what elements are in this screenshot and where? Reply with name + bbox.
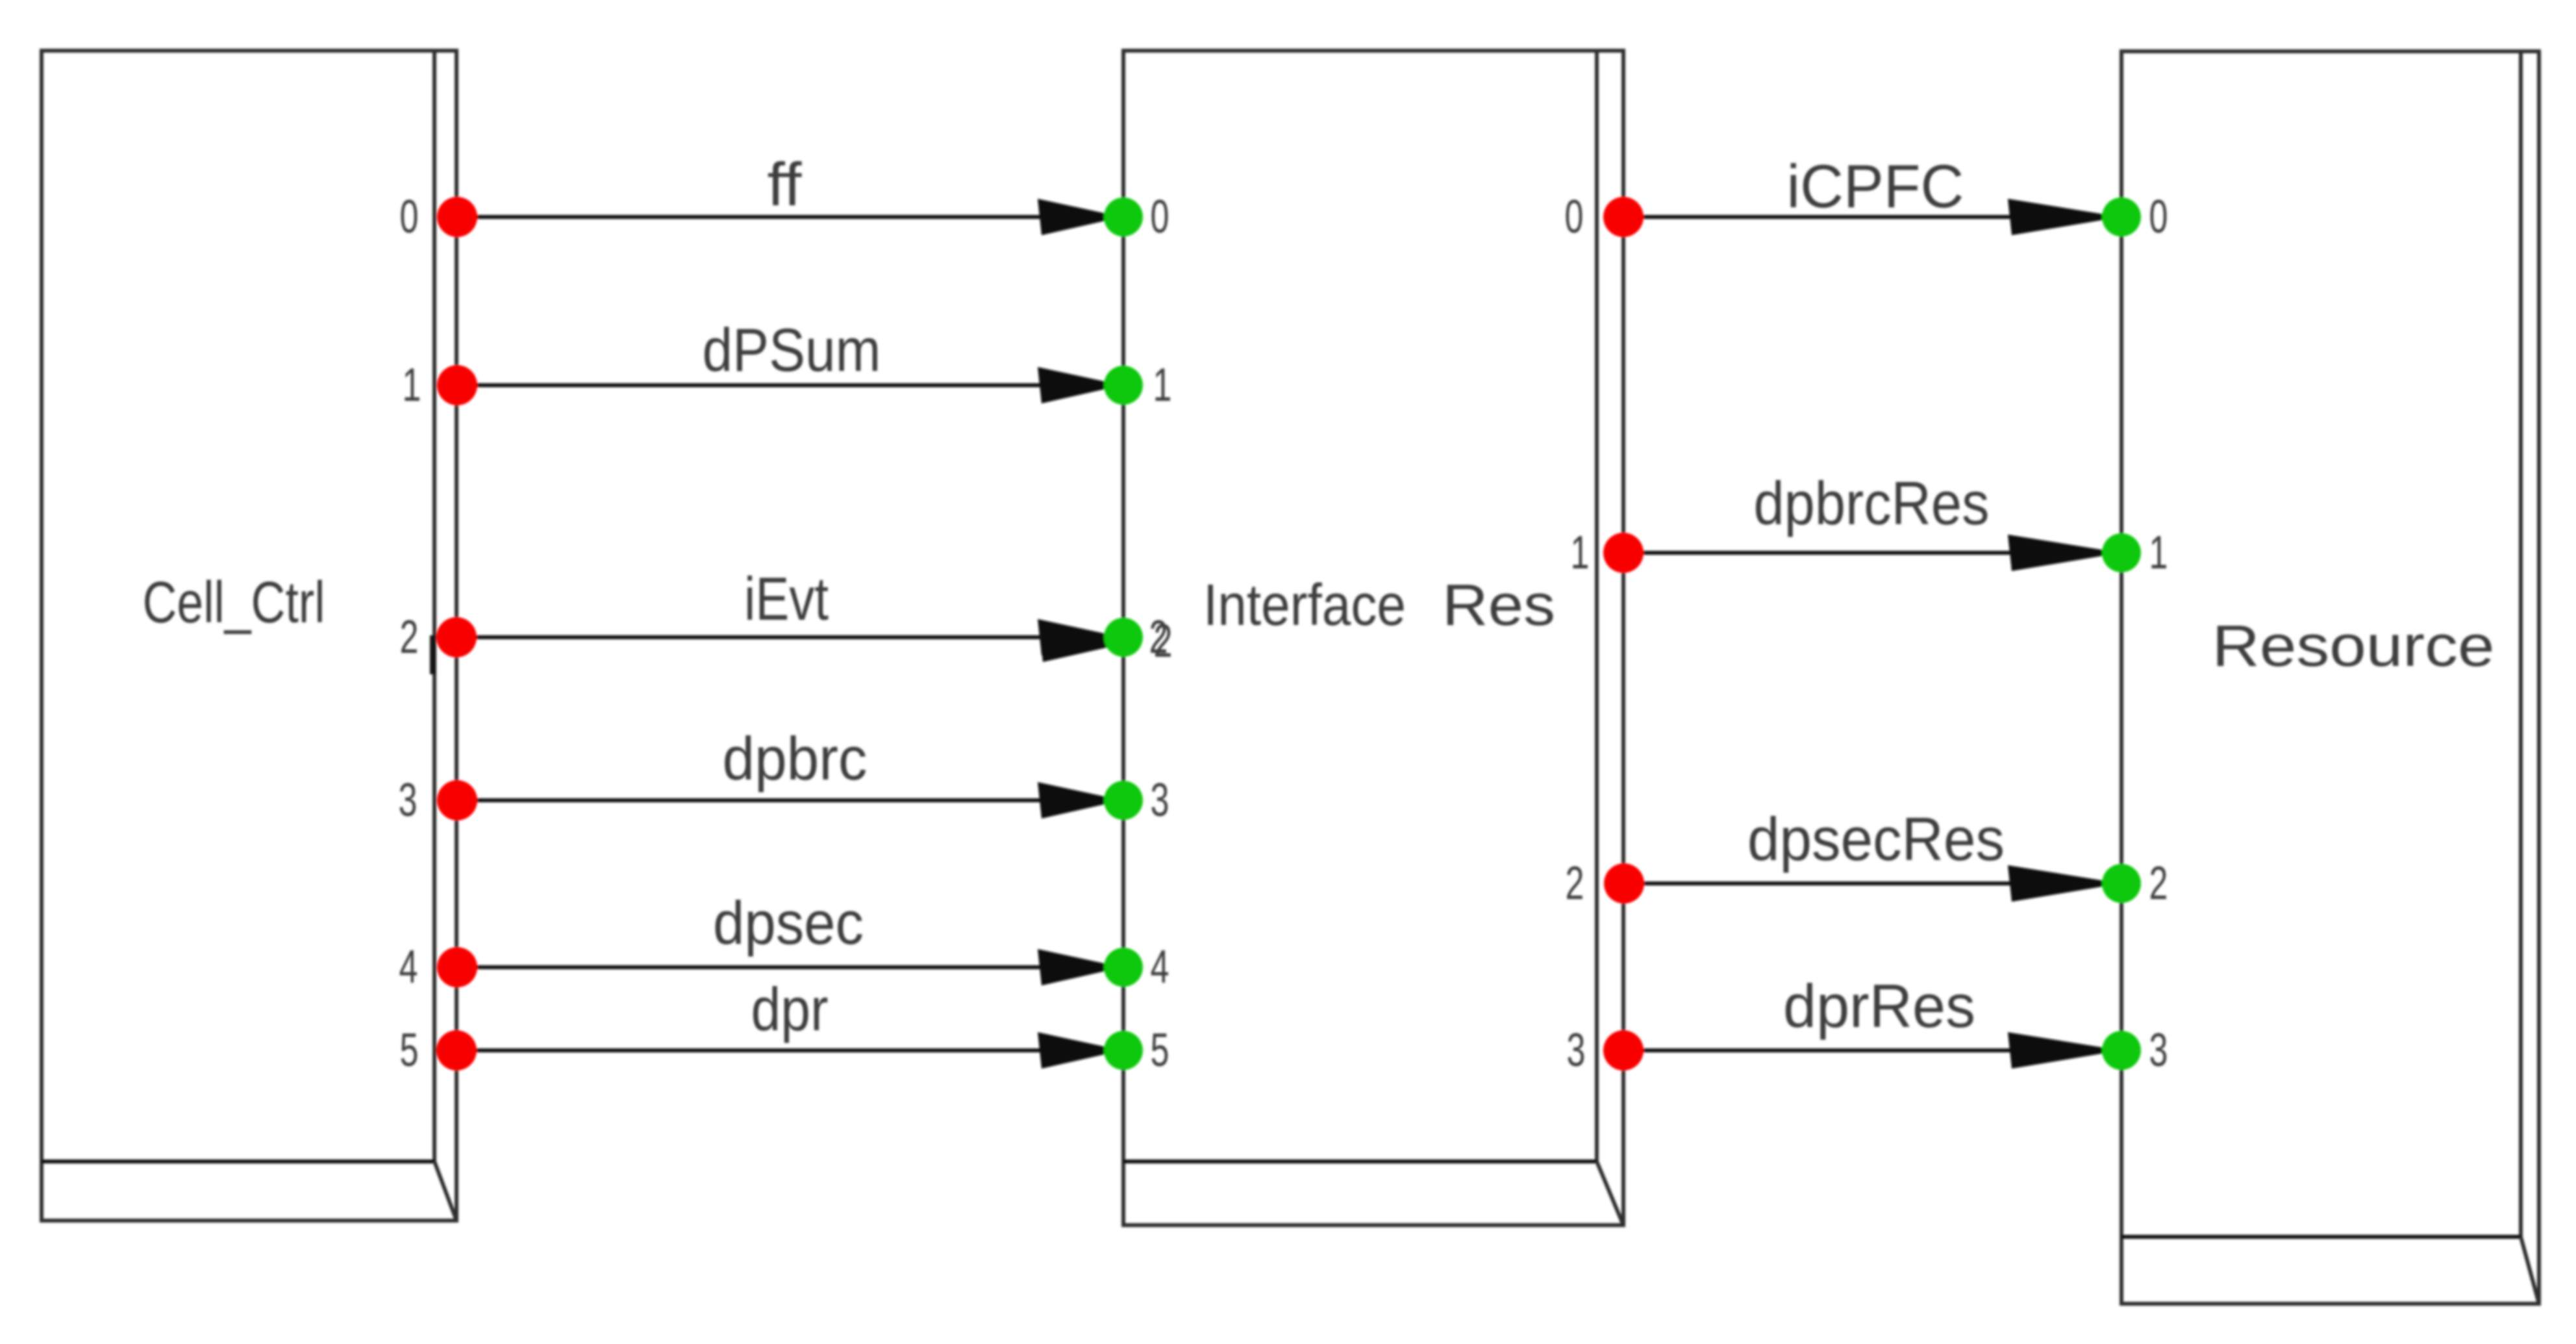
- port InterfaceRes in 3: [1104, 781, 1143, 820]
- arrowhead ff: [1038, 199, 1122, 235]
- svg-text:Res: Res: [1442, 573, 1555, 638]
- block Resource: [2121, 51, 2539, 1304]
- svg-text:0: 0: [400, 191, 419, 243]
- svg-text:5: 5: [1151, 1024, 1169, 1076]
- svg-text:4: 4: [399, 941, 418, 993]
- svg-text:dpbrc: dpbrc: [723, 724, 868, 792]
- wire dPSum: [457, 383, 1045, 387]
- svg-text:5: 5: [400, 1024, 419, 1076]
- block Cell_Ctrl: [42, 51, 456, 1221]
- port InterfaceRes out 1: [1603, 533, 1644, 573]
- port Cell_Ctrl 5: [436, 1030, 477, 1071]
- svg-text:1: 1: [1153, 359, 1172, 411]
- svg-text:4: 4: [1151, 941, 1169, 993]
- svg-text:2: 2: [1566, 857, 1584, 909]
- svg-text:1: 1: [403, 359, 421, 411]
- wire dprRes: [1623, 1048, 2013, 1052]
- svg-text:Cell_Ctrl: Cell_Ctrl: [143, 570, 325, 635]
- wire dpbrc: [457, 798, 1045, 802]
- port InterfaceRes out 0: [1603, 197, 1644, 237]
- port Cell_Ctrl 0: [437, 197, 477, 237]
- port InterfaceRes in 4: [1104, 948, 1143, 987]
- port InterfaceRes in 5: [1104, 1031, 1143, 1070]
- wire dpbrcRes: [1623, 551, 2013, 555]
- arrowhead dprRes: [2008, 1032, 2121, 1069]
- port Cell_Ctrl 1: [437, 365, 477, 405]
- svg-text:3: 3: [1567, 1024, 1586, 1076]
- port Cell_Ctrl 3: [437, 780, 477, 820]
- port Resource 2: [2102, 864, 2141, 903]
- svg-text:iEvt: iEvt: [744, 564, 829, 633]
- svg-text:dpr: dpr: [751, 975, 829, 1043]
- port Resource 0: [2102, 197, 2141, 236]
- svg-text:3: 3: [1151, 774, 1169, 826]
- port Cell_Ctrl 4: [437, 947, 477, 987]
- port Cell_Ctrl 2: [436, 617, 477, 657]
- svg-text:3: 3: [2149, 1024, 2168, 1076]
- arrowhead dpbrc: [1038, 782, 1122, 818]
- svg-text:dprRes: dprRes: [1783, 972, 1975, 1040]
- arrowhead iCPFC: [2008, 199, 2121, 235]
- port InterfaceRes in 0: [1104, 197, 1143, 236]
- arrowhead dPSum: [1038, 367, 1122, 403]
- svg-text:2: 2: [2149, 857, 2168, 909]
- arrowhead dpsecRes: [2008, 865, 2121, 902]
- port InterfaceRes out 2: [1604, 863, 1644, 904]
- svg-text:dPSum: dPSum: [703, 316, 881, 384]
- svg-text:0: 0: [1565, 191, 1584, 243]
- svg-text:dpsec: dpsec: [713, 889, 864, 957]
- svg-text:Interface: Interface: [1203, 573, 1406, 638]
- svg-text:2: 2: [1154, 615, 1173, 667]
- svg-text:3: 3: [399, 774, 418, 826]
- svg-text:1: 1: [1571, 527, 1590, 579]
- svg-text:0: 0: [1151, 191, 1169, 243]
- svg-text:dpsecRes: dpsecRes: [1747, 805, 2005, 873]
- block Interface Res: [1123, 51, 1623, 1225]
- port InterfaceRes out 3: [1603, 1030, 1644, 1071]
- wire dpsecRes: [1623, 881, 2013, 885]
- svg-text:Resource: Resource: [2212, 614, 2495, 679]
- wire dpr: [457, 1048, 1045, 1052]
- arrowhead dpsec: [1038, 949, 1122, 985]
- svg-text:iCPFC: iCPFC: [1787, 152, 1964, 220]
- arrowhead dpbrcRes: [2008, 535, 2121, 571]
- svg-text:2: 2: [400, 611, 419, 663]
- wire ff: [457, 215, 1045, 219]
- svg-text:0: 0: [2149, 191, 2168, 243]
- wire iEvt: [457, 635, 1045, 639]
- svg-text:1: 1: [2149, 527, 2168, 579]
- port InterfaceRes in 2 (doubled label): [1104, 618, 1143, 657]
- port InterfaceRes in 1: [1104, 366, 1143, 405]
- wire iCPFC: [1623, 215, 2013, 219]
- arrowhead dpr: [1038, 1032, 1122, 1069]
- svg-text:dpbrcRes: dpbrcRes: [1754, 469, 1990, 537]
- wire dpsec: [457, 965, 1045, 969]
- artifact bar below Cell_Ctrl port 2: [430, 635, 436, 674]
- arrowhead iEvt (doubled): [1038, 619, 1122, 655]
- port Resource 3: [2102, 1031, 2141, 1070]
- port Resource 1: [2102, 533, 2141, 572]
- svg-text:ff: ff: [768, 150, 803, 218]
